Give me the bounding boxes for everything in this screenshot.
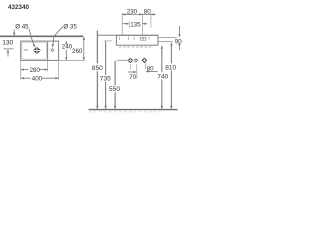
svg-text:135: 135 <box>130 21 141 28</box>
svg-text:740: 740 <box>157 73 168 80</box>
svg-text:230: 230 <box>127 9 138 16</box>
svg-text:432340: 432340 <box>8 4 30 11</box>
svg-text:80: 80 <box>144 9 151 16</box>
svg-text:Ø 35: Ø 35 <box>63 23 77 30</box>
svg-text:Ø 45: Ø 45 <box>15 23 29 30</box>
svg-text:280: 280 <box>30 67 41 74</box>
svg-text:400: 400 <box>32 75 43 82</box>
svg-text:130: 130 <box>2 39 13 46</box>
svg-text:260: 260 <box>72 48 83 55</box>
svg-text:735: 735 <box>100 76 111 83</box>
svg-text:850: 850 <box>92 65 103 72</box>
svg-text:70: 70 <box>129 74 136 81</box>
svg-text:810: 810 <box>165 64 176 71</box>
svg-text:550: 550 <box>109 86 120 93</box>
